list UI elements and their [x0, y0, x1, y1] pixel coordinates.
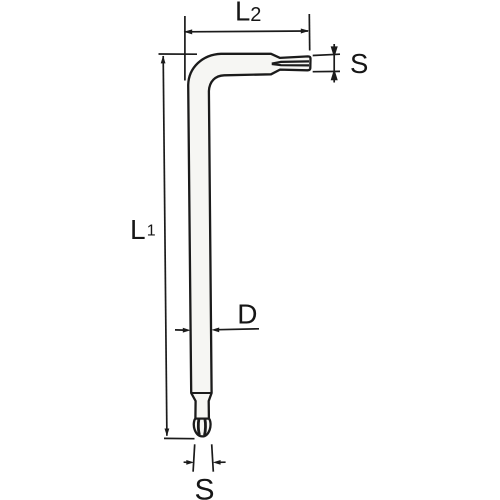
- L1 top arrowhead: [161, 56, 166, 64]
- L1 bottom arrowhead: [165, 429, 170, 437]
- L2 left extension line: [184, 16, 186, 81]
- D left arrow tail: [175, 329, 184, 331]
- S top extension line lower: [313, 70, 340, 72]
- svg-text:2: 2: [250, 4, 261, 26]
- S bottom right arrowhead: [213, 460, 221, 465]
- tip facet line upper: [272, 61, 309, 63]
- S bottom right arrow tail: [219, 461, 226, 463]
- S top dimension middle segment: [333, 55, 335, 72]
- ball top line: [195, 418, 209, 420]
- S top dimension lower arrow: [332, 72, 337, 83]
- S bottom left arrowhead: [186, 460, 194, 465]
- L1 dimension line: [163, 56, 167, 436]
- svg-text:L: L: [130, 214, 146, 245]
- svg-text:D: D: [237, 298, 257, 329]
- L2 dimension line: [185, 30, 308, 33]
- svg-text:L: L: [235, 0, 250, 26]
- L1 top extension line: [159, 53, 198, 55]
- tip facet line lower: [272, 64, 309, 65]
- S bottom right extension line: [212, 444, 214, 471]
- D right arrow tail: [218, 328, 259, 331]
- svg-text:S: S: [350, 48, 368, 79]
- L1 bottom extension line: [164, 437, 195, 439]
- svg-text:1: 1: [147, 222, 156, 239]
- S top dimension line upper arrow: [332, 44, 337, 55]
- ball facet line right: [203, 419, 207, 435]
- D right arrowhead: [211, 328, 219, 333]
- S bottom left arrow tail: [184, 461, 188, 463]
- S bottom left extension line: [193, 444, 195, 471]
- shaft chamfer shoulder line: [191, 392, 211, 394]
- hex key body: [188, 54, 310, 437]
- D left arrowhead: [183, 328, 191, 333]
- L2 right arrowhead: [301, 29, 310, 34]
- L2 left arrowhead: [184, 29, 193, 34]
- L2 right extension line: [308, 14, 310, 51]
- S top extension line upper: [313, 54, 340, 55]
- ball facet line left: [198, 419, 199, 435]
- svg-text:S: S: [195, 474, 215, 500]
